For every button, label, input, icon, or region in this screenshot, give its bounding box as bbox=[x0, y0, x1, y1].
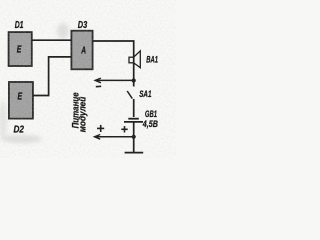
junction node minus output bbox=[132, 78, 136, 82]
label plus polarity battery bbox=[121, 126, 127, 132]
wire D3 to speaker rail bbox=[93, 41, 134, 87]
svg-text:BA1: BA1 bbox=[146, 54, 158, 65]
module D3 bbox=[71, 31, 92, 70]
svg-text:SA1: SA1 bbox=[139, 89, 151, 100]
terminal bar bottom bbox=[125, 152, 144, 154]
wire minus output arrow bbox=[95, 78, 134, 83]
wire battery to bottom terminal bbox=[133, 123, 135, 153]
svg-text:A: A bbox=[81, 45, 86, 56]
switch SA1 bbox=[127, 91, 132, 99]
svg-text:E: E bbox=[17, 44, 22, 55]
svg-text:E: E bbox=[18, 92, 23, 103]
wire D2 to D3 bbox=[33, 57, 72, 96]
module D1 bbox=[9, 32, 32, 66]
label minus polarity bbox=[96, 85, 101, 87]
wire D1 to D3 bbox=[32, 39, 71, 41]
svg-text:D2: D2 bbox=[14, 123, 25, 135]
battery GB1 bbox=[124, 119, 143, 122]
note Питание модулей bbox=[70, 92, 87, 132]
svg-text:4,5B: 4,5B bbox=[142, 119, 158, 130]
svg-text:модулей: модулей bbox=[77, 96, 87, 132]
svg-text:D1: D1 bbox=[15, 20, 24, 31]
wire plus output arrow bbox=[95, 135, 134, 140]
module D2 bbox=[9, 82, 33, 119]
svg-text:D3: D3 bbox=[78, 20, 88, 31]
junction node plus output bbox=[132, 135, 136, 139]
speaker BA1 bbox=[129, 51, 140, 68]
wire switch to battery bbox=[133, 99, 135, 117]
label plus polarity left bbox=[97, 125, 104, 132]
